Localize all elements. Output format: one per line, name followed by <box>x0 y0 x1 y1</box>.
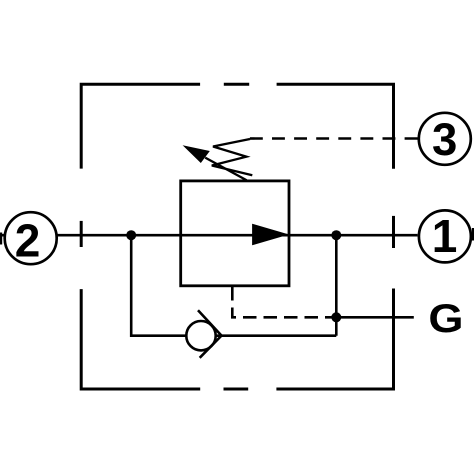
svg-text:G: G <box>428 297 463 342</box>
svg-text:1: 1 <box>432 210 458 262</box>
svg-text:2: 2 <box>15 215 41 267</box>
svg-text:3: 3 <box>432 114 457 165</box>
